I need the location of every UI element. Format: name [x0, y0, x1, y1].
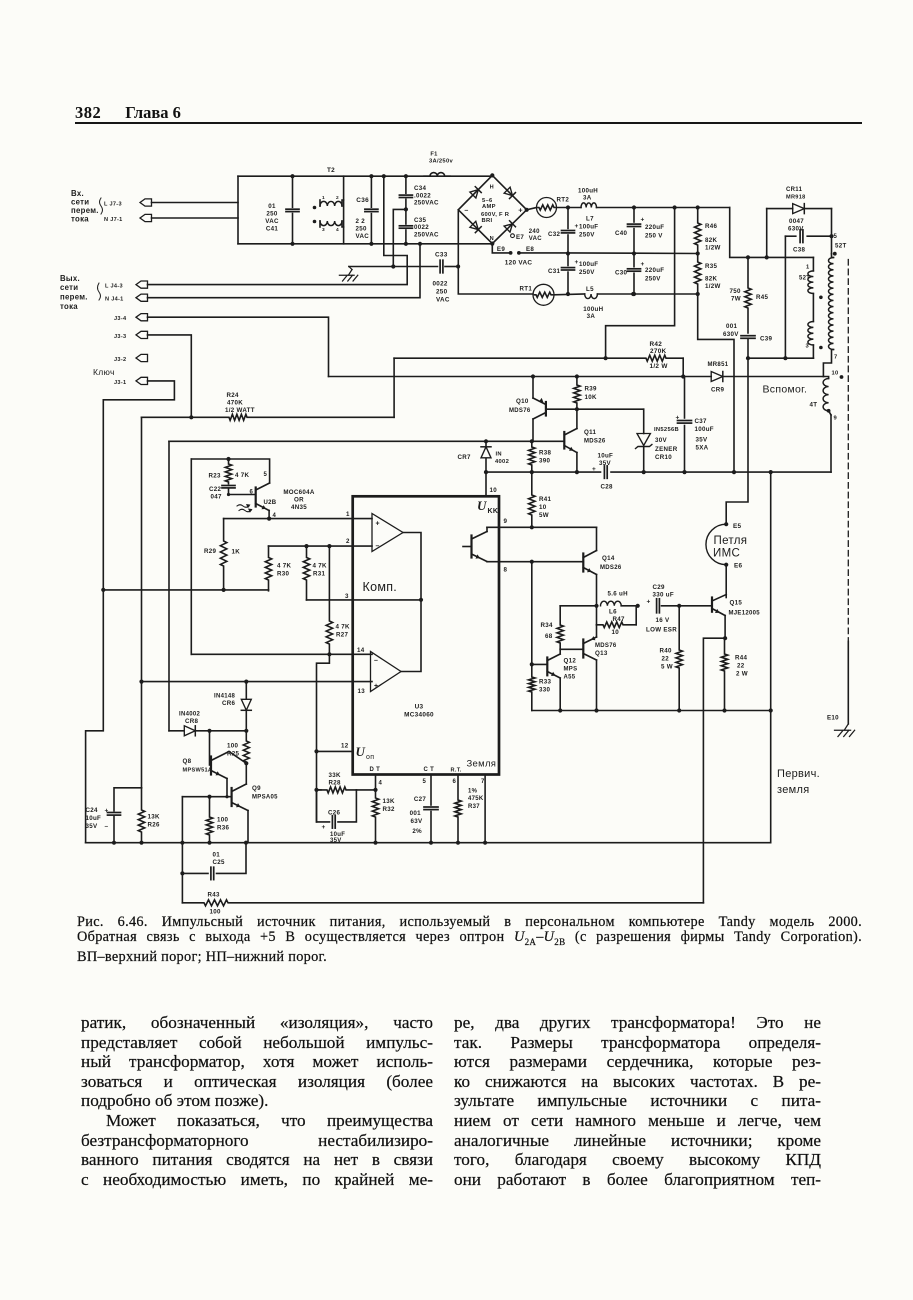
wire E8 middle bus	[568, 252, 698, 255]
svg-text:1%: 1%	[468, 789, 478, 795]
diode CR11	[767, 187, 832, 257]
svg-text:+: +	[641, 261, 645, 268]
wire Q10 base line	[546, 408, 644, 410]
resistor R42	[394, 341, 683, 370]
svg-text:L J7-3: L J7-3	[104, 202, 122, 208]
svg-text:10: 10	[539, 504, 547, 511]
wire pin3	[307, 593, 422, 600]
svg-text:U2B: U2B	[264, 500, 277, 506]
svg-text:1K: 1K	[232, 549, 241, 556]
svg-text:4: 4	[273, 513, 277, 519]
svg-text:0022: 0022	[433, 281, 448, 288]
thermistor RT1	[520, 284, 555, 305]
svg-text:R.T.: R.T.	[451, 768, 462, 774]
svg-text:Q8: Q8	[183, 758, 192, 765]
label C35	[414, 217, 439, 239]
connector J7-3	[104, 199, 152, 208]
inductor L7	[578, 188, 598, 223]
svg-text:Вых.: Вых.	[60, 274, 80, 283]
svg-text:6: 6	[453, 779, 457, 785]
svg-text:35V: 35V	[86, 823, 98, 830]
svg-text:9: 9	[834, 416, 838, 422]
wire 472 bus right	[611, 470, 831, 474]
svg-text:N J4-1: N J4-1	[105, 297, 124, 303]
opto light arrows	[237, 504, 253, 513]
svg-text:2%: 2%	[412, 828, 422, 835]
svg-text:52T: 52T	[799, 276, 810, 282]
svg-text:R38: R38	[539, 450, 552, 457]
resistor R34	[541, 606, 597, 650]
svg-text:Земля: Земля	[467, 759, 497, 770]
wire top AC bus	[238, 175, 492, 177]
svg-text:68: 68	[545, 633, 553, 640]
transformer aux winding 4T	[810, 371, 844, 473]
svg-text:100uF: 100uF	[579, 224, 598, 231]
wire base bus 441	[169, 439, 564, 443]
capacitor C34	[399, 174, 412, 209]
wire C38 left down	[784, 236, 786, 358]
svg-text:R31: R31	[313, 571, 326, 578]
svg-text:Q14: Q14	[602, 555, 615, 562]
wire 191 vertical	[190, 459, 192, 654]
svg-text:MJE12005: MJE12005	[729, 611, 761, 617]
wire J3-1 long path	[86, 381, 175, 843]
capacitor C38	[785, 218, 831, 254]
svg-text:MDS26: MDS26	[600, 565, 622, 571]
bridge diode lower-left	[470, 221, 481, 232]
wire Q9 base line	[182, 795, 231, 799]
svg-text:100uH: 100uH	[578, 188, 598, 195]
wire pin2	[269, 538, 373, 548]
figure caption	[77, 915, 862, 966]
transformer secondary 52T	[823, 243, 846, 377]
svg-text:+: +	[374, 683, 378, 690]
capacitor C40	[615, 208, 664, 256]
svg-text:LOW ESR: LOW ESR	[646, 627, 677, 634]
svg-text:630V: 630V	[723, 331, 739, 338]
svg-text:250VAC: 250VAC	[414, 231, 439, 238]
wire R27 jog to pin12	[314, 654, 329, 822]
svg-text:CR8: CR8	[185, 718, 199, 725]
svg-text:35V: 35V	[599, 460, 611, 467]
wire 472 bus left	[486, 471, 601, 473]
svg-text:2: 2	[346, 538, 350, 545]
connector J4-3	[105, 281, 148, 290]
capacitor C30	[615, 254, 664, 297]
label F1 top wire	[0, 0, 1, 1]
text aux winding label	[763, 384, 808, 396]
wire R24 jog up to R42 line	[393, 358, 395, 417]
wire R35 to 472 bus	[698, 294, 734, 472]
svg-text:10uF: 10uF	[598, 453, 614, 460]
svg-text:ZENER: ZENER	[655, 446, 678, 453]
resistor R35	[695, 254, 721, 297]
svg-text:C26: C26	[328, 810, 341, 817]
svg-text:1/2W: 1/2W	[705, 283, 721, 290]
svg-text:33K: 33K	[329, 772, 341, 779]
svg-text:R43: R43	[208, 892, 221, 899]
text primary ground label	[777, 768, 820, 796]
svg-text:3A/250v: 3A/250v	[429, 159, 453, 165]
svg-text:C24: C24	[86, 807, 99, 814]
resistor R30	[265, 546, 291, 591]
svg-text:100uF: 100uF	[695, 426, 714, 433]
fuse F1	[424, 152, 453, 177]
wire R28 to pin4 node	[356, 788, 377, 792]
svg-text:R46: R46	[705, 223, 718, 230]
capacitor C41	[286, 174, 299, 246]
svg-text:Q11: Q11	[584, 429, 597, 436]
wire J7-1 to C41 box	[152, 217, 239, 219]
svg-text:J3-1: J3-1	[114, 380, 126, 386]
transistor Q11	[564, 409, 606, 474]
wire pin9 corner	[596, 527, 598, 550]
wire J3-3 down to R24	[148, 335, 194, 420]
svg-text:0022: 0022	[414, 224, 429, 231]
svg-text:4 7K: 4 7K	[277, 563, 292, 570]
svg-text:RT1: RT1	[520, 286, 533, 293]
svg-text:100: 100	[217, 817, 228, 824]
svg-text:C36: C36	[356, 197, 369, 204]
diode CR8	[169, 712, 246, 736]
inductor L6	[594, 591, 639, 608]
header rule	[75, 122, 862, 124]
svg-text:250V: 250V	[579, 269, 595, 276]
svg-text:+: +	[647, 599, 651, 606]
resistor R24	[142, 392, 395, 420]
wire J3-4 to aux bus	[148, 317, 329, 376]
svg-text:01: 01	[268, 203, 276, 210]
wire pin14	[191, 647, 372, 654]
transistor Q14	[583, 551, 622, 606]
svg-text:MR918: MR918	[786, 195, 806, 201]
svg-text:E5: E5	[733, 523, 742, 530]
transistor Q9	[232, 763, 279, 842]
diode CR9	[708, 362, 729, 394]
svg-text:52T: 52T	[835, 243, 847, 250]
svg-text:E7: E7	[516, 234, 524, 241]
svg-text:270K: 270K	[650, 348, 667, 355]
svg-text:Q12: Q12	[564, 658, 577, 665]
connector J3-2	[114, 354, 148, 363]
ground chassis	[339, 267, 357, 282]
svg-text:4: 4	[336, 227, 339, 233]
wire CR11 right down	[829, 209, 837, 254]
svg-text:C37: C37	[695, 418, 708, 425]
svg-text:–: –	[376, 543, 380, 550]
svg-text:R35: R35	[705, 263, 718, 270]
resistor R31	[303, 546, 327, 600]
svg-text:250: 250	[356, 226, 367, 233]
svg-text:C41: C41	[266, 226, 279, 233]
wire C34-C35 tap to ground line	[393, 209, 406, 266]
resistor R33	[529, 664, 552, 710]
svg-text:330 uF: 330 uF	[653, 592, 674, 599]
inductor L5	[583, 286, 603, 320]
svg-text:C T: C T	[424, 767, 435, 773]
capacitor C36	[365, 174, 378, 246]
wire J4-1 to bottom bus	[148, 242, 423, 298]
svg-text:VAC: VAC	[265, 218, 279, 225]
svg-text:220uF: 220uF	[645, 267, 664, 274]
resistor R25	[227, 731, 249, 766]
label opto type	[283, 489, 315, 511]
label U3 MC34060	[404, 704, 434, 719]
wire Q12 base drop	[530, 562, 534, 667]
svg-text:4 7K: 4 7K	[235, 472, 250, 479]
body text right column	[454, 1013, 821, 1189]
svg-text:RT2: RT2	[557, 197, 570, 204]
capacitor C26	[317, 790, 357, 844]
svg-text:IN: IN	[496, 452, 502, 458]
label C41 value	[265, 203, 279, 233]
transistor Q15	[712, 565, 760, 641]
svg-text:+: +	[376, 521, 380, 528]
svg-text:240: 240	[529, 229, 540, 235]
svg-text:R45: R45	[756, 294, 769, 301]
svg-text:+: +	[575, 259, 579, 266]
wire left vertical 169	[168, 441, 170, 731]
svg-text:8: 8	[504, 567, 508, 574]
wire pin4 R32	[376, 775, 383, 790]
svg-text:C39: C39	[760, 336, 773, 343]
svg-text:10: 10	[490, 487, 498, 494]
wire pin13	[142, 680, 373, 696]
capacitor C39	[723, 323, 773, 360]
svg-text:470K: 470K	[227, 400, 243, 407]
wire emitter bus 710	[532, 708, 771, 712]
transistor Q12	[532, 649, 578, 710]
wire 770 vertical	[769, 472, 773, 843]
op-amp comparator U1A	[372, 514, 403, 552]
svg-text:2: 2	[336, 195, 339, 201]
svg-text:VAC: VAC	[356, 233, 370, 240]
wire top rail to corner	[566, 205, 730, 209]
svg-text:5: 5	[264, 472, 268, 478]
svg-text:120 VAC: 120 VAC	[505, 260, 533, 267]
capacitor C37	[676, 377, 714, 473]
svg-text:+: +	[518, 206, 523, 215]
svg-text:250V: 250V	[645, 276, 661, 283]
svg-text:250V: 250V	[579, 232, 595, 239]
svg-text:U3: U3	[415, 704, 424, 711]
svg-text:R37: R37	[468, 804, 480, 810]
svg-text:+: +	[676, 415, 680, 422]
capacitor C35	[399, 207, 412, 246]
svg-text:5: 5	[423, 779, 427, 785]
transformer T2	[313, 176, 344, 244]
wire ground bus 842	[86, 841, 771, 845]
svg-text:MR851: MR851	[708, 362, 729, 368]
svg-text:R30: R30	[277, 571, 290, 578]
svg-text:C33: C33	[435, 252, 448, 259]
transistor Q10	[509, 377, 546, 442]
svg-text:F1: F1	[430, 152, 438, 158]
bridge diode upper-right	[504, 187, 515, 198]
connector J7-1	[104, 214, 152, 223]
svg-text:+: +	[322, 824, 326, 831]
capacitor C31	[548, 254, 598, 297]
wire pin10 into box	[486, 472, 497, 496]
svg-text:N J7-1: N J7-1	[104, 217, 123, 223]
bridge rectifier BR1 outline	[458, 173, 529, 245]
svg-text:4 7K: 4 7K	[336, 624, 351, 631]
wire bottom AC bus	[238, 243, 492, 245]
svg-text:ИМС: ИМС	[713, 548, 740, 560]
svg-text:3: 3	[806, 344, 810, 350]
svg-text:Первич.: Первич.	[777, 768, 820, 780]
resistor R38	[529, 441, 552, 474]
resistor R39	[574, 377, 597, 412]
transformer primary 52T	[799, 257, 823, 358]
svg-text:4: 4	[379, 781, 383, 787]
svg-text:VAC: VAC	[529, 236, 542, 242]
op-amp comparator U1B	[371, 652, 402, 692]
svg-text:R24: R24	[227, 392, 240, 399]
label 120 VAC	[505, 260, 533, 267]
svg-text:C28: C28	[601, 484, 614, 491]
transformer T2 label	[327, 167, 335, 174]
svg-text:82K: 82K	[705, 237, 717, 244]
wire pin9	[487, 518, 597, 529]
svg-text:L5: L5	[586, 286, 594, 293]
bridge diode upper-left	[470, 187, 481, 198]
svg-text:C35: C35	[414, 217, 427, 224]
svg-text:U: U	[356, 744, 366, 759]
resistor R45	[730, 257, 769, 333]
resistor R46	[695, 208, 721, 256]
svg-text:100uF: 100uF	[579, 261, 598, 268]
wire opamp outputs	[401, 533, 423, 672]
resistor R36	[206, 797, 229, 843]
svg-text:C25: C25	[213, 859, 226, 866]
wire L5 to R35 bottom	[597, 292, 697, 296]
wire top rail corner down	[730, 208, 814, 260]
resistor R41	[529, 472, 552, 527]
svg-text:2 2: 2 2	[356, 218, 366, 225]
transistor internal Q	[463, 527, 487, 561]
svg-text:Комп.: Комп.	[363, 580, 398, 594]
svg-text:E10: E10	[827, 715, 839, 722]
svg-text:100: 100	[227, 743, 238, 750]
wire RT1 to L5	[554, 293, 585, 296]
svg-text:330: 330	[539, 687, 550, 694]
svg-text:R23: R23	[209, 473, 222, 480]
svg-text:5XA: 5XA	[696, 445, 709, 452]
capacitor C32	[548, 208, 598, 256]
svg-text:оп: оп	[366, 754, 374, 761]
svg-text:5: 5	[834, 234, 838, 240]
capacitor C29	[646, 584, 712, 634]
svg-text:001: 001	[410, 810, 421, 817]
svg-text:J3-2: J3-2	[114, 357, 126, 363]
thermistor RT2	[537, 197, 570, 218]
svg-text:A55: A55	[564, 675, 576, 681]
svg-text:63V: 63V	[411, 818, 423, 825]
svg-text:Ключ: Ключ	[93, 367, 115, 377]
svg-text:047: 047	[211, 494, 222, 501]
svg-text:–: –	[464, 207, 468, 214]
svg-text:CR11: CR11	[786, 187, 803, 193]
svg-text:9: 9	[504, 518, 508, 525]
svg-text:C40: C40	[615, 230, 628, 237]
svg-text:J3-3: J3-3	[114, 334, 126, 340]
wire RT2 to L7	[557, 207, 582, 209]
svg-text:100uH: 100uH	[583, 306, 603, 313]
wire bridge+ to RT2	[527, 208, 537, 210]
svg-text:1/2 WATT: 1/2 WATT	[225, 407, 255, 414]
capacitor C28	[592, 453, 613, 491]
diode CR7	[458, 441, 510, 474]
svg-text:Q9: Q9	[252, 785, 261, 792]
svg-text:R47: R47	[613, 616, 626, 623]
resistor R27	[326, 546, 350, 656]
svg-text:5W: 5W	[539, 512, 549, 519]
svg-text:MPSW51A: MPSW51A	[183, 768, 213, 774]
svg-text:13K: 13K	[148, 814, 160, 821]
svg-text:13K: 13K	[383, 798, 395, 805]
capacitor C25	[182, 843, 246, 880]
svg-text:MDS76: MDS76	[509, 408, 531, 414]
label Ukk	[477, 498, 498, 515]
svg-text:250 V: 250 V	[645, 233, 663, 240]
wire aux bus	[329, 374, 712, 378]
svg-text:1/2W: 1/2W	[705, 245, 721, 252]
svg-text:H: H	[490, 185, 494, 191]
svg-text:CR6: CR6	[222, 700, 236, 707]
connector J3-4	[114, 314, 148, 323]
connector J3-1	[114, 377, 148, 386]
svg-text:250VAC: 250VAC	[414, 200, 439, 207]
label Uop	[356, 744, 375, 761]
svg-text:C29: C29	[653, 584, 666, 591]
svg-text:R33: R33	[539, 679, 552, 686]
wire 182 vertical	[180, 797, 184, 903]
svg-text:U: U	[477, 498, 487, 513]
svg-text:R39: R39	[585, 386, 598, 393]
body text left column	[81, 1013, 433, 1189]
svg-text:22: 22	[737, 663, 745, 670]
svg-text:IN4148: IN4148	[214, 694, 236, 700]
resistor R29	[204, 519, 240, 590]
svg-text:T2: T2	[327, 167, 335, 174]
svg-text:4N35: 4N35	[291, 504, 307, 511]
svg-text:750: 750	[730, 288, 741, 295]
wire R42 to aux bus	[682, 358, 684, 376]
svg-text:1/2 W: 1/2 W	[650, 363, 669, 370]
label DT CT RT ground pins	[370, 759, 497, 774]
resistor R47	[597, 606, 637, 636]
svg-text:MPSA05: MPSA05	[252, 795, 278, 801]
svg-text:+: +	[641, 217, 645, 224]
shield dashed line	[847, 260, 849, 724]
svg-text:D T: D T	[370, 767, 381, 773]
transistor Q13	[560, 625, 617, 711]
resistor R23	[209, 459, 268, 484]
svg-text:MC34060: MC34060	[404, 712, 434, 719]
svg-text:C38: C38	[793, 247, 806, 254]
svg-text:1: 1	[346, 511, 350, 518]
svg-text:C30: C30	[615, 270, 628, 277]
svg-text:E8: E8	[526, 246, 534, 253]
svg-text:R34: R34	[541, 622, 554, 629]
svg-text:AMP: AMP	[482, 204, 496, 210]
label C34	[414, 185, 439, 207]
svg-text:10: 10	[612, 629, 620, 636]
capacitor C24	[86, 807, 121, 843]
svg-text:3: 3	[322, 227, 325, 233]
svg-text:R26: R26	[148, 822, 161, 829]
